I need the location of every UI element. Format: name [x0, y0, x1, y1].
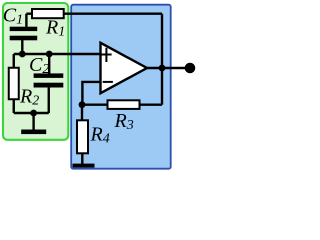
node junction C1-bottom: [19, 51, 26, 58]
wire plus input: [14, 53, 101, 55]
green region (RC network): [3, 3, 68, 140]
resistor R2: [13, 54, 15, 68]
resistor R1: [32, 9, 64, 18]
resistor R4: [77, 105, 88, 164]
blue region (op-amp stage): [71, 5, 171, 169]
ground (blue box): [73, 164, 95, 168]
node output junction: [159, 65, 166, 72]
node junction ground-left: [30, 110, 37, 117]
wire minus input: [82, 82, 100, 105]
wire top feedback: R1 right to vertical drop: [26, 12, 162, 14]
node junction C2-top: [46, 51, 53, 58]
op-amp U1: [101, 43, 148, 93]
wire bottom (R2 to C2 bottom): [14, 112, 49, 114]
wire feedback vertical: [161, 14, 163, 105]
capacitor C2: [34, 54, 64, 113]
output terminal: [185, 63, 196, 74]
node junction minus/R3/R4: [79, 101, 86, 108]
wire output: [147, 67, 190, 69]
ground (green box): [21, 113, 46, 134]
resistor R3: [82, 100, 162, 109]
capacitor C1: [10, 14, 38, 54]
